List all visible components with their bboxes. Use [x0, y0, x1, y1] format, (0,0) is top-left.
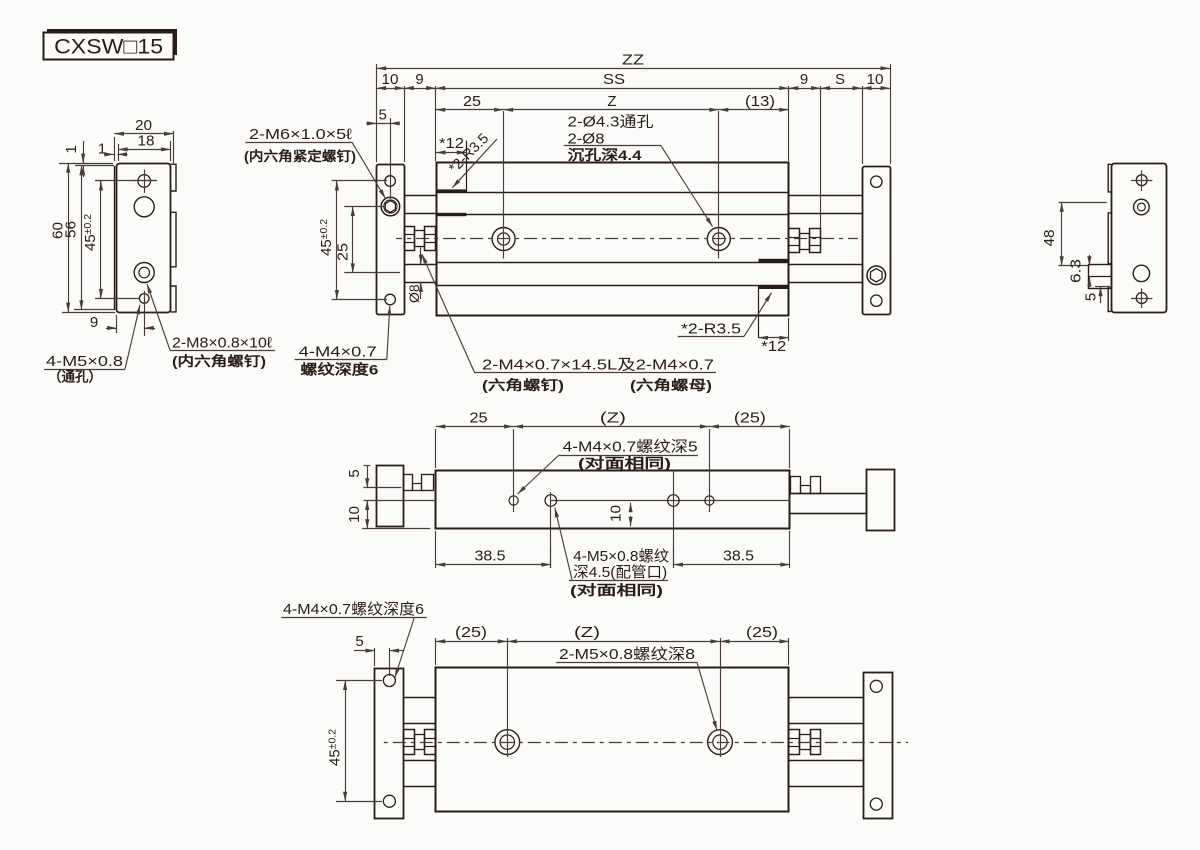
main view: center axis dashed — [396, 238, 858, 240]
svg-text:(内六角螺钉): (内六角螺钉) — [172, 353, 266, 369]
svg-text:20: 20 — [135, 117, 152, 134]
svg-text:4-M4×0.7螺纹深度6: 4-M4×0.7螺纹深度6 — [283, 601, 424, 618]
svg-text:10: 10 — [346, 506, 363, 523]
left view: leader 4-M5x0.8 — [44, 369, 125, 371]
bottom view: dim row 25-Z-25 — [435, 638, 437, 665]
svg-text:18: 18 — [138, 133, 155, 150]
svg-text:38.5: 38.5 — [723, 547, 754, 564]
top view: leader 4-M5 port — [569, 580, 668, 582]
main view: rod bore lines — [436, 192, 789, 194]
main view: right hex bolt — [867, 266, 886, 285]
right view: rod circle — [1133, 265, 1149, 281]
right view: body tabs left edge — [1108, 164, 1111, 311]
left view: M8 counterbore — [134, 263, 154, 283]
svg-text:5: 5 — [346, 469, 363, 477]
svg-text:(对面相同): (对面相同) — [570, 582, 663, 598]
bottom view: counterbore holes — [495, 730, 520, 755]
main view: label *2-R3.5 diagonal — [452, 139, 497, 188]
main view: bottom guide rod left segment — [404, 264, 436, 266]
right view: plate outline — [1112, 164, 1167, 313]
top view: leader 4-M4 depth5 — [559, 455, 699, 457]
main view: dim 25 left — [344, 206, 386, 208]
left view: dim 56 — [74, 309, 114, 311]
right view: dim 6.3 — [1089, 255, 1091, 266]
left view: top M5 hole — [138, 175, 151, 188]
svg-text:45±0.2: 45±0.2 — [326, 729, 343, 766]
svg-text:(25): (25) — [734, 409, 766, 426]
svg-text:9: 9 — [800, 71, 808, 88]
svg-text:25: 25 — [334, 243, 351, 261]
main view: counterbore hole right — [707, 228, 730, 251]
main view: counterbore hole left — [492, 228, 515, 251]
title box shadow — [47, 29, 177, 55]
top view: left plate — [377, 466, 404, 527]
main view: top guide rod left segment — [404, 195, 436, 197]
main view: leader 2-M4 nuts — [422, 254, 475, 372]
main view: left plate bottom hole — [385, 294, 396, 305]
main view: dim row 25-Z-13 — [436, 109, 789, 111]
bottom view: dim 5 — [374, 648, 376, 666]
right view: bottom M5 hole — [1136, 293, 1147, 304]
svg-text:(Z): (Z) — [600, 409, 626, 426]
svg-text:2-M8×0.8×10ℓ: 2-M8×0.8×10ℓ — [172, 335, 272, 352]
left view: dim 20 — [114, 137, 116, 161]
main view: dim *12 bottom — [788, 318, 790, 341]
svg-text:4-M4×0.7螺纹深5: 4-M4×0.7螺纹深5 — [563, 439, 698, 456]
svg-text:*12: *12 — [439, 135, 464, 152]
bottom view: rods right — [789, 697, 864, 699]
svg-text:10: 10 — [867, 71, 884, 88]
left view: leader 2-M8x0.8x10 — [170, 350, 275, 352]
main view: cushion strips — [436, 189, 466, 192]
svg-text:SS: SS — [603, 71, 625, 88]
svg-text:CXSW□15: CXSW□15 — [54, 34, 163, 58]
main view: dim 45+-0.2 left — [332, 180, 387, 182]
svg-text:2-M4×0.7×14.5L及2-M4×0.7: 2-M4×0.7×14.5L及2-M4×0.7 — [482, 356, 714, 373]
svg-text:5: 5 — [355, 633, 363, 650]
main view: label *2-R3.5 bottom — [678, 336, 744, 338]
svg-text:25: 25 — [470, 409, 488, 426]
main view: corner cut lines — [466, 141, 468, 193]
svg-text:5: 5 — [379, 107, 387, 124]
bottom view: right plate — [864, 673, 893, 819]
main view: dim 5 plate — [390, 118, 392, 199]
left view: body tabs right edge — [171, 164, 176, 312]
svg-text:(对面相同): (对面相同) — [578, 455, 671, 471]
svg-text:ZZ: ZZ — [622, 52, 644, 69]
svg-text:S: S — [835, 71, 845, 88]
main view: right rod nuts — [789, 229, 800, 253]
svg-text:Ø8: Ø8 — [406, 284, 422, 303]
svg-text:（通孔）: （通孔） — [48, 370, 102, 385]
left view: dim 1 vertical — [59, 163, 113, 165]
svg-text:10: 10 — [608, 505, 625, 522]
main view: leader 2-M6 set screw — [245, 142, 352, 144]
left view: dim 1 horizontal — [104, 154, 114, 156]
svg-text:(六角螺钉): (六角螺钉) — [482, 377, 564, 393]
main view: left plate top hole — [385, 176, 396, 187]
bottom view: center axis dashed — [382, 742, 908, 744]
left view: dim 60 — [62, 312, 115, 314]
top view: right nuts — [791, 477, 801, 494]
bottom view: leader 2-M5 depth8 — [556, 662, 697, 664]
main view: dim ZZ — [376, 64, 378, 162]
svg-text:48: 48 — [1041, 230, 1058, 247]
svg-text:螺纹深度6: 螺纹深度6 — [300, 362, 378, 378]
svg-text:2-Ø4.3通孔: 2-Ø4.3通孔 — [568, 114, 654, 131]
right view: ring hole — [1134, 199, 1150, 215]
right view: dim 5 — [1095, 286, 1110, 288]
svg-text:38.5: 38.5 — [475, 547, 506, 564]
top view: dim 10 center — [630, 503, 632, 512]
main view: top guide rod right segment — [789, 195, 862, 197]
top view: left nuts — [404, 475, 413, 491]
top view: dim 5 — [364, 465, 371, 467]
svg-text:56: 56 — [63, 221, 80, 238]
bottom view: body outline — [436, 668, 789, 812]
left view: plate outline — [117, 164, 171, 313]
svg-text:(Z): (Z) — [574, 624, 600, 641]
svg-text:10: 10 — [382, 71, 399, 88]
main view: right plate top hole — [871, 176, 882, 187]
main view: left end plate — [377, 165, 405, 315]
main view: dim row 10-9-SS-9-S-10 — [404, 86, 406, 162]
main view: left rod nuts — [405, 227, 415, 251]
top view: body outline — [436, 471, 790, 529]
bottom view: left plate — [375, 669, 404, 819]
svg-text:(13): (13) — [745, 93, 775, 110]
svg-text:*12: *12 — [761, 338, 786, 355]
title box — [44, 33, 174, 60]
top view: dim row 25-Z-25 — [435, 429, 437, 468]
svg-text:5: 5 — [1082, 293, 1099, 301]
top view: hole verticals — [513, 429, 515, 512]
top view: dim 10 left — [367, 501, 369, 529]
svg-text:6.3: 6.3 — [1068, 259, 1085, 283]
bottom view: right nuts — [789, 730, 800, 755]
left view: dim 45+-0.2 — [95, 180, 157, 182]
svg-text:9: 9 — [90, 314, 98, 331]
right view: dim 48 — [1059, 202, 1107, 204]
left view: dim 18 — [118, 144, 120, 161]
svg-text:1: 1 — [98, 140, 106, 157]
svg-text:深4.5(配管口): 深4.5(配管口) — [573, 564, 667, 581]
svg-text:Z: Z — [607, 93, 616, 110]
left view: bottom M5 hole — [139, 294, 149, 304]
svg-text:2-M5×0.8螺纹深8: 2-M5×0.8螺纹深8 — [559, 646, 695, 663]
bottom view: dim 45+-0.2 — [336, 680, 382, 682]
left view: rod end circle — [134, 197, 154, 217]
svg-text:(25): (25) — [746, 624, 778, 641]
main view: hole center verticals — [503, 111, 505, 259]
main view: hex set screw — [381, 197, 400, 216]
svg-text:(内六角紧定螺钉): (内六角紧定螺钉) — [244, 148, 356, 164]
svg-text:*2-R3.5: *2-R3.5 — [681, 320, 741, 337]
main view: bottom guide rod right segment — [789, 264, 862, 266]
svg-text:(25): (25) — [455, 624, 487, 641]
main view: dim dia8 rod — [420, 247, 422, 264]
main view: dim *12 top — [436, 152, 466, 154]
main view: right plate bottom hole — [871, 295, 882, 306]
left view: body edge behind plate — [114, 166, 116, 310]
svg-text:4-M5×0.8螺纹: 4-M5×0.8螺纹 — [573, 548, 669, 565]
svg-text:45±0.2: 45±0.2 — [318, 219, 335, 256]
main view: leader 4-M4 depth6 — [295, 359, 387, 361]
top view: dim 38.5 right — [789, 531, 791, 568]
top view: rod hidden lines — [364, 487, 402, 489]
left view: dim 9 — [116, 315, 118, 333]
top view: dim 38.5 left — [435, 531, 437, 568]
svg-text:1: 1 — [63, 145, 80, 153]
svg-text:45±0.2: 45±0.2 — [82, 214, 99, 251]
bottom view: left nuts — [404, 730, 415, 755]
svg-text:2-M6×1.0×5ℓ: 2-M6×1.0×5ℓ — [249, 126, 352, 143]
top view: port holes — [509, 496, 518, 505]
svg-text:25: 25 — [463, 93, 481, 110]
main view: body outline — [437, 163, 789, 316]
svg-text:4-M4×0.7: 4-M4×0.7 — [299, 344, 377, 361]
top view: right rod — [790, 494, 867, 514]
svg-text:沉孔深4.4: 沉孔深4.4 — [568, 147, 642, 163]
svg-text:9: 9 — [415, 71, 423, 88]
svg-text:4-M5×0.8: 4-M5×0.8 — [46, 353, 123, 370]
top view: right plate — [867, 470, 895, 531]
main view: right end plate — [863, 167, 891, 315]
bottom view: header 4-M4 depth6 — [281, 617, 426, 619]
right view: rod end with flats — [1089, 265, 1112, 289]
right view: top M5 hole — [1136, 175, 1147, 186]
bottom view: rods left — [404, 697, 436, 699]
svg-text:(六角螺母): (六角螺母) — [630, 377, 712, 393]
